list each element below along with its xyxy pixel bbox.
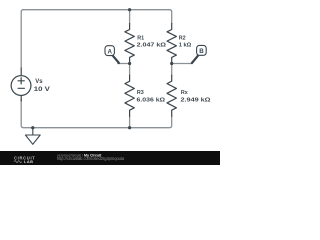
footer logo zigzag [14, 161, 22, 163]
svg-text:B: B [199, 48, 204, 55]
svg-text:Rx: Rx [181, 90, 188, 96]
svg-text:6.036 kΩ: 6.036 kΩ [137, 98, 166, 104]
junction: node A [128, 62, 131, 65]
wire: node A stub to left branch [118, 63, 130, 65]
wire: left branch below R3 [129, 116, 131, 128]
svg-text:R3: R3 [137, 90, 144, 96]
svg-text:A: A [107, 48, 112, 55]
junction: bottom node [128, 126, 131, 129]
footer bar [0, 151, 220, 165]
ground [25, 128, 40, 145]
wire: bottom rail from right branch to source [21, 100, 172, 128]
junction: ground node [31, 126, 34, 129]
node A badge [105, 46, 114, 56]
svg-text:1 kΩ: 1 kΩ [179, 42, 192, 48]
svg-text:LAB: LAB [24, 159, 34, 164]
voltage source Vs [11, 68, 31, 101]
junction: node B [170, 62, 173, 65]
node B badge [197, 45, 207, 55]
wire: right branch between node B and Rx [171, 64, 173, 76]
resistor R3 [125, 75, 134, 116]
svg-text:http://circuitlab.com/c6ed2rg4: http://circuitlab.com/c6ed2rg4pmqouta [57, 156, 125, 161]
node A flag pointer [112, 55, 119, 63]
svg-text:2.047 kΩ: 2.047 kΩ [137, 43, 167, 49]
resistor R1 [125, 24, 134, 64]
wire: left branch top segment [129, 10, 131, 24]
resistor Rx [167, 75, 176, 116]
svg-text:R2: R2 [179, 35, 186, 41]
node B flag pointer [192, 55, 199, 63]
svg-text:2.949 kΩ: 2.949 kΩ [181, 98, 211, 104]
svg-text:R1: R1 [137, 36, 144, 42]
resistor R2 [167, 24, 176, 64]
svg-text:10 V: 10 V [34, 86, 51, 93]
wire: top rail from source to right branch [21, 10, 172, 68]
wire: node B stub from right branch [172, 63, 193, 65]
wire: left branch between node A and R3 [129, 64, 131, 76]
junction: top node [128, 8, 131, 11]
svg-text:Vs: Vs [35, 79, 43, 85]
